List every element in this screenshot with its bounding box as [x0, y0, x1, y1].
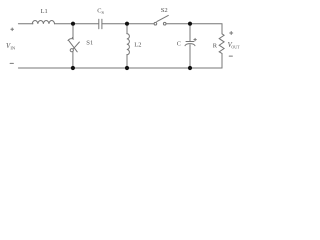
- resistor R zigzag: [219, 34, 224, 54]
- switch S1 contact circle: [70, 49, 73, 52]
- plus sign V_OUT: [230, 32, 233, 35]
- wire bottom rail: [18, 67, 222, 69]
- switch S1 actuator hook: [68, 38, 73, 41]
- capacitor C curved plate: [185, 44, 195, 46]
- inductor L2 bottom lead: [126, 55, 128, 68]
- node C junction dot: [188, 22, 192, 26]
- inductor L2 top lead: [126, 24, 128, 34]
- minus sign V_OUT: [229, 55, 232, 57]
- node A junction dot: [71, 22, 75, 26]
- node B junction dot: [125, 22, 129, 26]
- wire L1 to node A: [55, 23, 99, 25]
- bottom junction dot S1: [71, 66, 75, 70]
- capacitor C bottom lead: [189, 45, 191, 68]
- svg-text:S2: S2: [161, 7, 168, 14]
- wire C_s to node B: [102, 23, 154, 25]
- svg-text:C: C: [177, 41, 181, 48]
- switch S2 right contact: [163, 22, 166, 25]
- switch S2 blade: [157, 15, 169, 21]
- wire S2 to top right corner: [166, 24, 222, 34]
- svg-text:CS: CS: [97, 7, 104, 15]
- bottom junction dot C: [188, 66, 192, 70]
- switch S1 blade cross stroke: [69, 41, 77, 52]
- plus sign V_IN: [11, 28, 14, 31]
- svg-text:L1: L1: [41, 8, 48, 15]
- svg-text:IN: IN: [10, 45, 16, 50]
- wire top left segment: [18, 23, 33, 25]
- svg-text:L2: L2: [134, 42, 141, 49]
- svg-text:S1: S1: [86, 39, 93, 46]
- switch S1 top lead: [72, 24, 74, 38]
- wire R to bottom wire: [221, 54, 223, 69]
- bottom junction dot L2: [125, 66, 129, 70]
- capacitor C top plate: [186, 41, 194, 43]
- svg-text:R: R: [213, 43, 218, 50]
- inductor L1: [32, 21, 54, 24]
- inductor L2 coil: [127, 34, 130, 55]
- capacitor C_s plates: [98, 19, 100, 29]
- switch S1 bottom lead: [72, 52, 74, 68]
- plus sign capacitor C: [194, 38, 196, 40]
- switch S2 left contact: [154, 22, 157, 25]
- svg-text:OUT: OUT: [231, 44, 240, 49]
- switch S1 blade: [73, 42, 79, 49]
- minus sign V_IN: [10, 62, 13, 64]
- capacitor C top lead: [189, 24, 191, 42]
